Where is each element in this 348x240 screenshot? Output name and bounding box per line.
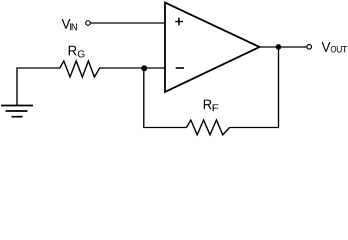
wire junction down to RF (144, 68, 187, 128)
wire VIN terminal to op-amp noninverting input (91, 22, 165, 24)
label RG (69, 46, 85, 58)
resistor RG (60, 61, 100, 77)
op-amp plus marking (175, 18, 183, 26)
op-amp U1 (165, 3, 260, 93)
label VOUT (322, 42, 348, 52)
op-amp minus marking (176, 67, 184, 69)
terminal VIN (86, 21, 91, 26)
node inverting-input junction (141, 65, 147, 71)
node output junction (276, 44, 282, 50)
label VIN (62, 19, 77, 30)
resistor RF (187, 120, 230, 135)
wire ground up and right to RG (17, 68, 61, 106)
terminal VOUT (307, 45, 312, 50)
wire RF to output node (230, 47, 279, 128)
label RF (204, 100, 219, 112)
wire op-amp output (260, 46, 307, 48)
wire RG to inverting input (99, 67, 165, 69)
ground (1, 106, 33, 117)
